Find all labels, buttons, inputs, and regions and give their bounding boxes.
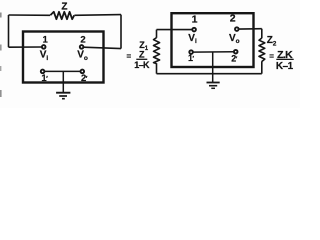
wire: feedback loop left vertical xyxy=(8,15,10,47)
fraction bar xyxy=(276,58,293,60)
terminal 2' xyxy=(234,50,238,54)
svg-text:Z: Z xyxy=(139,50,145,60)
wire: top horizontal left of resistor xyxy=(9,14,51,16)
wire: terminal 2 to loop xyxy=(84,47,122,48)
svg-text:1: 1 xyxy=(43,35,49,46)
scan smudges at left edge xyxy=(0,13,2,18)
resistor Z2 xyxy=(259,38,265,62)
terminal 1 xyxy=(192,28,196,32)
svg-text:=: = xyxy=(127,52,132,61)
fraction bar xyxy=(136,58,147,60)
wire: feedback loop right vertical xyxy=(120,15,122,49)
ground xyxy=(207,82,220,84)
terminal 1 xyxy=(42,45,46,49)
wire: Z1 top lead xyxy=(156,30,158,38)
svg-text:2: 2 xyxy=(230,12,236,24)
terminal 2' xyxy=(81,70,85,74)
svg-text:2: 2 xyxy=(80,35,85,46)
wire: 1' to 2' xyxy=(193,51,234,53)
wire: 1' to 2' xyxy=(44,70,80,72)
wire: bottom rail xyxy=(157,73,262,75)
wire: top horizontal right of resistor xyxy=(74,14,121,17)
wire: Z2 bottom lead xyxy=(261,61,263,73)
svg-text:K–1: K–1 xyxy=(276,61,294,72)
ground xyxy=(56,92,70,94)
resistor Z xyxy=(50,12,74,19)
svg-text:=: = xyxy=(269,52,274,61)
svg-text:1–K: 1–K xyxy=(134,60,150,70)
terminal 1' xyxy=(189,50,193,54)
wire: Z1 bottom lead xyxy=(156,63,158,73)
two-port network box N2 xyxy=(172,13,254,67)
two-port network box N1 xyxy=(23,32,104,83)
terminal 2 xyxy=(235,27,239,31)
wire: Z2 top lead xyxy=(261,29,263,39)
terminal 2 xyxy=(80,45,84,49)
svg-text:Z: Z xyxy=(61,2,67,13)
terminal 1' xyxy=(41,70,45,74)
wire: ground stub xyxy=(212,52,214,82)
wire: ground stub xyxy=(62,71,64,92)
wire: into terminal 1 xyxy=(9,46,42,48)
wire: terminal 1 to Z1 xyxy=(157,29,193,31)
wire: terminal 2 to Z2 xyxy=(239,28,262,30)
svg-text:1: 1 xyxy=(192,14,198,26)
resistor Z1 xyxy=(154,38,160,64)
